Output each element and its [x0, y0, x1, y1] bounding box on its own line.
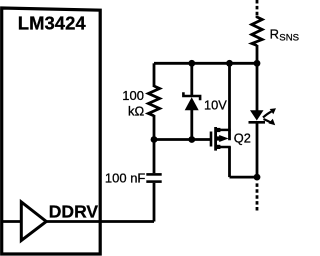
source contact tick [217, 145, 220, 149]
svg-text:kΩ: kΩ [128, 104, 145, 119]
wire capacitor bottom to DDRV wire [153, 183, 156, 222]
dashed wire below LED node [256, 183, 259, 211]
wire top rail to LED anode [256, 63, 259, 111]
source stub [217, 146, 231, 149]
body contact tick [217, 136, 220, 140]
LED emission arrow lower [264, 119, 271, 123]
wire LED cathode to node [256, 122, 259, 177]
wire DDRV output to capacitor branch [46, 220, 154, 223]
svg-text:LM3424: LM3424 [18, 12, 87, 33]
wire top rail to zener cathode [190, 63, 193, 96]
wire zener anode to gate rail [190, 109, 193, 140]
svg-text:10V: 10V [204, 98, 227, 113]
svg-text:SNS: SNS [279, 33, 299, 44]
svg-text:Q2: Q2 [234, 131, 251, 146]
zener diode D1 10V [183, 92, 200, 110]
wire gate rail to capacitor top [153, 140, 156, 174]
capacitor C1 100 nF [146, 174, 161, 181]
wire Q2 source down [228, 147, 231, 178]
drain contact tick [217, 128, 220, 132]
wire gate rail [154, 138, 210, 141]
node gate rail / zener junction [188, 136, 195, 143]
svg-text:100 nF: 100 nF [105, 170, 146, 185]
drain stub [217, 129, 231, 132]
dashed wire above RSNS [256, 0, 259, 15]
node LED cathode / Q2 source junction [254, 174, 261, 181]
body arrow [219, 135, 228, 142]
node top rail / RSNS LED junction [254, 60, 261, 67]
svg-text:100: 100 [122, 88, 144, 103]
wire Q2 drain to top rail [228, 63, 231, 140]
value label 100 kOhm [122, 88, 144, 119]
wire top rail to R1 top [153, 63, 156, 87]
channel bar [214, 127, 217, 151]
wire RSNS bottom to top rail [256, 45, 259, 63]
wire buffer input stub [2, 220, 22, 223]
node gate rail / R1 capacitor junction [151, 136, 158, 143]
LED emission arrow upper [263, 112, 272, 118]
gate bar [210, 132, 213, 147]
svg-text:DDRV: DDRV [49, 201, 99, 221]
op-amp U1 LM3424 IC box [2, 8, 101, 254]
wire R1 bottom to gate rail [153, 115, 156, 140]
LED D2 [249, 108, 277, 125]
wire Q2 source to LED cathode node [230, 176, 258, 179]
label RSNS [270, 27, 299, 44]
wire top rail [154, 62, 257, 65]
svg-text:R: R [270, 27, 279, 42]
transistor Q2 N-channel MOSFET [210, 127, 231, 151]
resistor RSNS [252, 16, 262, 46]
resistor R1 100 kOhm [148, 86, 159, 116]
node top rail / Q2 drain junction [226, 60, 233, 67]
node top rail / zener junction [188, 60, 195, 67]
buffer driver triangle inside LM3424 [21, 202, 46, 241]
